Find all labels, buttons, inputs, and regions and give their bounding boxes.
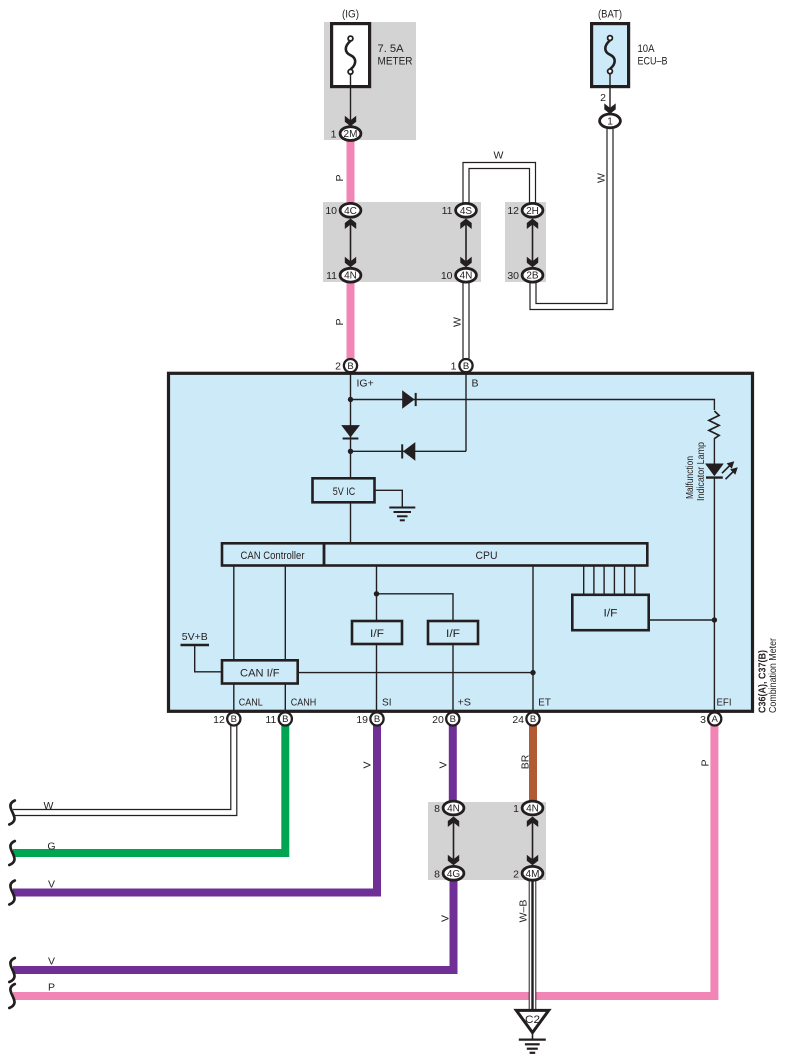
INTERNAL WIRES — [195, 374, 715, 714]
junction arrow 2H-2B — [527, 219, 538, 268]
svg-text:8: 8 — [434, 868, 440, 880]
svg-text:24: 24 — [512, 714, 524, 726]
svg-text:(IG): (IG) — [342, 9, 359, 21]
node SI branch junction — [374, 591, 379, 596]
wire G (green) CANH pin 11 to left edge — [13, 722, 285, 853]
break symbol G wire — [9, 841, 15, 865]
pin 3 A EFI — [700, 712, 721, 725]
svg-text:11: 11 — [265, 714, 276, 726]
junction arrow 4N-4G — [448, 817, 459, 866]
wire CPU to big I/F stub 4 — [613, 566, 615, 595]
svg-text:4N: 4N — [344, 271, 357, 282]
fuse F1 7.5A METER box — [332, 24, 370, 87]
connector panel 2H/2B — [505, 202, 546, 282]
wire I/F 1 to pin 19 SI — [376, 645, 378, 714]
wire diode row 2 horizontal to B — [351, 450, 467, 452]
connector 4N pin 10 — [441, 268, 477, 282]
wire P (pink) fuse 2M to 4C — [347, 138, 355, 206]
connector 4M pin 2 — [513, 866, 543, 880]
svg-text:8: 8 — [434, 803, 440, 815]
wire 5V IC to CPU — [350, 503, 352, 543]
wire CAN I/F to ET node — [299, 672, 534, 674]
svg-text:4N: 4N — [460, 271, 473, 282]
svg-text:11: 11 — [326, 270, 337, 282]
svg-text:7. 5A: 7. 5A — [378, 43, 405, 55]
wire CANL to pin 12 — [233, 684, 235, 714]
node diode row 2 junction — [348, 449, 353, 454]
svg-text:B: B — [374, 714, 380, 725]
svg-text:G: G — [47, 840, 55, 852]
wire V (purple) SI pin 19 to left edge — [13, 722, 377, 893]
svg-text:1: 1 — [513, 803, 519, 815]
svg-text:4M: 4M — [526, 869, 540, 880]
pin 24 B ET — [512, 712, 539, 725]
wire CPU to I/F 1 (SI) — [376, 566, 378, 620]
svg-text:P: P — [334, 318, 346, 325]
wire CPU to big I/F stub 6 — [634, 566, 636, 595]
pin 11 B CANH — [265, 712, 292, 725]
connector panel 4C/4N + 4S/4N — [323, 202, 481, 282]
wire CAN controller to CAN I/F left — [233, 566, 235, 660]
svg-text:METER: METER — [378, 56, 413, 68]
fuse F2 10A ECU-B box — [592, 24, 629, 87]
svg-text:2: 2 — [600, 92, 606, 104]
wire branch to I/F 2 — [377, 594, 454, 620]
wire W from battery fuse to 2B — [533, 126, 610, 307]
svg-text:I/F: I/F — [370, 628, 384, 640]
svg-text:EFI: EFI — [717, 697, 732, 709]
svg-text:I/F: I/F — [446, 628, 460, 640]
pin 19 B SI — [356, 712, 383, 725]
svg-text:4G: 4G — [447, 869, 461, 880]
wire CPU to big I/F stub 2 — [593, 566, 595, 595]
svg-text:12: 12 — [213, 714, 225, 726]
ground (5V IC) — [389, 508, 415, 521]
svg-text:A: A — [712, 714, 719, 725]
svg-text:W: W — [596, 173, 608, 183]
svg-text:B: B — [472, 378, 479, 390]
label Malfunction Indicator Lamp — [685, 442, 707, 501]
pin 2 B — [335, 359, 357, 373]
arrow into connector 1 — [604, 103, 615, 114]
diode D1 (IG+ to MIL, pointing right) — [402, 390, 416, 409]
diode D2 (IG+ vertical, pointing down) — [341, 425, 360, 438]
svg-text:4S: 4S — [460, 206, 473, 217]
arrow into 2M — [345, 116, 356, 127]
svg-text:CAN Controller: CAN Controller — [241, 550, 305, 562]
wire W CANL pin 12 to left edge — [13, 723, 234, 813]
wire 5V IC to ground — [376, 490, 403, 506]
connector 4G pin 8 — [434, 866, 464, 880]
svg-text:Combination Meter: Combination Meter — [768, 637, 779, 713]
wire V (purple) connector 4G to left edge — [13, 876, 454, 970]
connector 1 — [600, 114, 621, 128]
box I/F big — [572, 595, 648, 630]
pin 12 B CANL — [213, 712, 240, 725]
IG fuse gray panel — [324, 22, 416, 140]
svg-text:10A: 10A — [638, 43, 656, 55]
break symbol V wire lower — [9, 958, 15, 982]
svg-text:V: V — [437, 761, 449, 768]
svg-text:IG+: IG+ — [357, 378, 374, 390]
resistor R (malfunction indicator lamp) — [709, 411, 719, 439]
wire P (pink) 4N to meter pin 2 — [347, 279, 355, 362]
box 5V IC — [313, 478, 375, 502]
svg-text:1: 1 — [451, 361, 457, 373]
diode D3 (B row, pointing left) — [402, 442, 415, 461]
junction arrow 4N-4M — [527, 817, 538, 866]
wire W 4N to meter pin 1 — [462, 278, 469, 362]
wire IG+ vertical — [350, 374, 352, 478]
svg-text:B: B — [463, 361, 469, 372]
svg-text:P: P — [48, 981, 55, 993]
box I/F 2 — [428, 621, 478, 644]
svg-text:CPU: CPU — [476, 550, 498, 562]
connector 4N pin 11 — [326, 268, 361, 282]
svg-text:4N: 4N — [447, 804, 460, 815]
svg-text:B: B — [450, 714, 456, 725]
svg-text:1: 1 — [331, 128, 337, 140]
svg-text:V: V — [362, 761, 374, 768]
wire IG+ node to resistor (top horizontal) — [351, 400, 715, 411]
svg-text:10: 10 — [325, 205, 337, 217]
svg-text:W: W — [452, 317, 464, 327]
svg-text:CANL: CANL — [239, 697, 263, 709]
svg-text:W–B: W–B — [518, 900, 530, 923]
svg-text:C36(A), C37(B): C36(A), C37(B) — [757, 650, 768, 713]
wire CANH to pin 11 — [284, 684, 286, 714]
wire I/F 2 to pin 20 +S — [452, 645, 454, 714]
connector 4N pin 8 — [434, 801, 464, 815]
node ET junction — [530, 670, 535, 675]
svg-text:2: 2 — [335, 361, 341, 373]
LED D (malfunction indicator lamp) — [705, 461, 738, 479]
svg-text:4N: 4N — [526, 804, 539, 815]
wire CAN controller to CAN I/F right — [284, 566, 286, 660]
svg-text:2M: 2M — [344, 129, 358, 140]
wire W-B connector 4M to ground C2 — [529, 876, 537, 1010]
net 5V+B — [181, 631, 210, 645]
wire CPU to pin 24 ET — [532, 566, 534, 714]
svg-text:CANH: CANH — [291, 697, 317, 709]
connector 4C pin 10 — [325, 203, 361, 217]
connector 4N pin 1 — [513, 801, 543, 815]
wire fuse F2 to connector 1 — [609, 74, 611, 111]
connector 2M pin 1 — [331, 127, 361, 141]
pin 1 B — [451, 359, 473, 373]
svg-text:SI: SI — [382, 697, 392, 709]
svg-text:12: 12 — [507, 205, 519, 217]
svg-text:2B: 2B — [526, 271, 539, 282]
svg-text:B: B — [530, 714, 536, 725]
svg-text:2: 2 — [513, 868, 519, 880]
svg-text:30: 30 — [507, 270, 519, 282]
wire resistor to LED — [713, 438, 715, 464]
wire fuse F1 to connector 2M — [350, 74, 352, 124]
svg-text:ET: ET — [538, 697, 551, 709]
svg-text:B: B — [347, 361, 353, 372]
wire BR (brown) ET pin 24 to connector 4N — [529, 722, 537, 806]
svg-text:10: 10 — [441, 270, 453, 282]
svg-text:+S: +S — [458, 697, 472, 709]
svg-text:BR: BR — [520, 754, 532, 769]
connector 2B pin 30 — [507, 268, 543, 282]
wire P (pink) EFI pin 3 to left edge — [13, 722, 714, 996]
svg-text:19: 19 — [356, 714, 368, 726]
svg-text:2H: 2H — [526, 206, 539, 217]
connector panel 4N/4G + 4N/4M — [428, 802, 546, 880]
svg-text:CAN I/F: CAN I/F — [240, 667, 280, 679]
box CAN Controller + CPU — [222, 543, 647, 565]
wire W loop 4S to 2H — [466, 166, 533, 208]
svg-text:Malfunction: Malfunction — [685, 456, 696, 499]
box I/F 1 — [352, 621, 402, 644]
pin 20 B +S — [432, 712, 459, 725]
svg-text:W: W — [494, 150, 504, 162]
svg-text:B: B — [282, 714, 288, 725]
wire 5V+B drop — [195, 645, 221, 672]
svg-text:ECU–B: ECU–B — [638, 56, 668, 68]
junction arrow 4C-4N — [345, 219, 356, 268]
ground C2 — [516, 1010, 548, 1052]
wire LED to pin 3 EFI — [713, 478, 715, 714]
wire I/F right to EFI line — [650, 619, 715, 621]
svg-text:I/F: I/F — [604, 608, 618, 620]
svg-text:20: 20 — [432, 714, 444, 726]
svg-text:P: P — [334, 174, 346, 181]
svg-text:5V+B: 5V+B — [182, 631, 208, 643]
svg-text:B: B — [231, 714, 237, 725]
box CAN I/F — [222, 660, 298, 683]
connector 2H pin 12 — [507, 203, 543, 217]
wire B vertical from pin 1 — [465, 374, 467, 451]
break symbol W wire — [9, 801, 15, 825]
svg-text:V: V — [439, 915, 451, 922]
svg-text:W: W — [44, 800, 54, 812]
combination meter box — [169, 373, 753, 711]
wire V (purple) +S pin 20 to connector 4N — [449, 722, 457, 806]
wire CPU to big I/F stub 3 — [603, 566, 605, 595]
wire CPU to big I/F stub 5 — [624, 566, 626, 595]
junction arrow 4S-4N — [460, 219, 471, 268]
svg-text:11: 11 — [442, 205, 453, 217]
svg-text:P: P — [700, 759, 712, 766]
svg-text:1: 1 — [607, 116, 613, 127]
wire CPU to big I/F stub 1 — [583, 566, 585, 595]
break symbol P wire — [9, 984, 15, 1008]
svg-text:C2: C2 — [525, 1014, 540, 1026]
svg-text:3: 3 — [700, 714, 706, 726]
svg-text:V: V — [48, 955, 55, 967]
node IG+ junction — [348, 397, 353, 402]
svg-text:4C: 4C — [344, 206, 357, 217]
connector 4S pin 11 — [442, 203, 477, 217]
svg-text:V: V — [48, 878, 55, 890]
svg-text:5V IC: 5V IC — [333, 486, 356, 498]
node EFI / IF junction — [712, 617, 717, 622]
break symbol V wire — [9, 881, 15, 905]
svg-text:Indicator Lamp: Indicator Lamp — [696, 442, 707, 501]
svg-text:(BAT): (BAT) — [598, 9, 622, 21]
